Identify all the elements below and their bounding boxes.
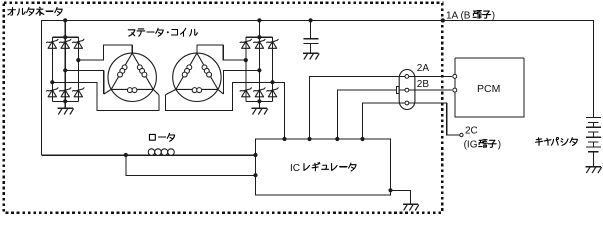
node: regulator P terminal <box>282 137 286 141</box>
label: ステータ・コイル (stator coil) <box>128 28 197 36</box>
label: (IG端子) <box>464 140 502 151</box>
labels (kana drawn with mini stroke font) <box>8 7 578 174</box>
ground: capacitor bank <box>586 167 602 173</box>
diode D3 (left bridge top row, col3) <box>72 39 84 48</box>
ground: capacitor C1 <box>303 53 319 59</box>
rotor coil L1 <box>148 149 174 156</box>
wire: left bridge column 2 <box>64 37 66 101</box>
node: left bridge phase tap col3 <box>76 58 80 62</box>
ground: left bridge <box>57 108 73 114</box>
label: キャパシタ (capacitor) <box>535 137 577 145</box>
PCM box U2 <box>455 58 524 117</box>
wire 2A: connector pin1 to PCM <box>409 75 452 77</box>
label: ロータ (rotor) <box>149 133 174 141</box>
diode D6 (left bridge bottom row, col3) <box>72 88 84 97</box>
connector pin 3 <box>405 101 409 105</box>
wire: rotor upper wire <box>42 154 256 156</box>
connector pin 2 <box>405 88 409 92</box>
svg-text:2A: 2A <box>417 63 430 74</box>
wire 2B: connector pin2 to PCM <box>409 89 452 91</box>
node: regulator terminal to 2C <box>360 137 364 141</box>
node: left bridge B+ junction <box>63 18 67 22</box>
stator R circle <box>173 53 221 101</box>
svg-text:): ) <box>492 10 495 21</box>
node: left bridge phase tap col2 <box>63 68 67 72</box>
wire: right col3 tap around bottom to right stator lower-left lead <box>165 82 272 110</box>
svg-text:IC: IC <box>290 163 300 174</box>
stator coil right (delta winding) <box>165 53 223 101</box>
alternator dotted boundary box <box>4 3 443 213</box>
wire: stem into capacitor bank <box>592 115 594 117</box>
svg-text:PCM: PCM <box>477 83 500 95</box>
wire stubs to pins inside capsule <box>400 76 405 103</box>
label: ICレギュレータ (IC regulator) <box>290 162 356 173</box>
node: right bridge bottom bus junction <box>257 99 261 103</box>
node: right bridge phase tap col3 <box>270 80 274 84</box>
svg-text:1A (B: 1A (B <box>446 10 471 21</box>
diode D5 (left bridge bottom row, col2) <box>59 88 71 97</box>
wire: right bridge bottom bus <box>246 100 273 102</box>
wire: left bridge ground stem <box>64 101 66 108</box>
capacitor bank plates <box>586 117 601 151</box>
svg-text:(IG: (IG <box>464 140 478 151</box>
stator R winding loops right edge <box>202 65 212 77</box>
diode D2 (left bridge top row, col2) <box>59 39 71 48</box>
wire: left bridge top bus <box>52 36 78 38</box>
wire: right col3 tap to IC regulator P terminal <box>273 82 285 139</box>
diode D11 (right bridge bottom row, col2) <box>253 88 265 97</box>
stator L delta triangle <box>111 53 153 89</box>
stator R winding loops bottom edge <box>192 88 201 93</box>
node: regulator F terminal (rotor) <box>253 153 257 157</box>
stator L lead bottom-left <box>104 89 112 94</box>
wire: regulator to connector pin 1 <box>310 76 406 139</box>
diode D7 (right bridge top row, col1) <box>240 39 252 48</box>
connector key notch <box>396 87 399 94</box>
stator R lead bottom-left <box>165 89 176 94</box>
svg-text:2B: 2B <box>417 79 430 90</box>
diode D12 (right bridge bottom row, col3) <box>267 88 279 97</box>
wire: right bridge col2 riser to B+ bus <box>258 20 260 37</box>
svg-text:2C: 2C <box>465 126 478 137</box>
capacitor C1 (noise suppressor on B+ bus) <box>303 18 319 59</box>
stator L lead bottom-right <box>153 89 159 94</box>
diode D10 (right bridge bottom row, col1) <box>240 88 252 97</box>
wire: left bridge column 1 <box>51 37 53 101</box>
capacitor C1 plates <box>303 39 318 44</box>
capacitor bank inner stems <box>592 122 594 147</box>
wire: left col2 tap to left stator lower-left lead <box>65 70 104 94</box>
capacitor bank (キャパシタ) at battery line <box>586 115 602 173</box>
stator coil left (delta winding) <box>104 53 159 101</box>
node: regulator terminal to 2A <box>307 137 311 141</box>
diode D9 (right bridge top row, col3) <box>267 39 279 48</box>
stator L circle <box>108 53 156 101</box>
wire: regulator to connector pin 3 <box>363 103 406 139</box>
node: right bridge phase tap col1 <box>244 58 248 62</box>
connector J1 (capsule) <box>399 70 415 110</box>
wire: capacitor bottom stem <box>310 44 312 53</box>
wire: left col3 tap to left stator top vertex <box>78 45 132 60</box>
node: left bridge top bus junction <box>63 35 67 39</box>
stator R delta triangle <box>176 53 218 89</box>
wire: capacitor top stem <box>310 20 312 38</box>
PCM pin for 2B <box>453 88 457 92</box>
wire: right bridge column 3 <box>272 37 274 101</box>
terminal: 2C IG open circle <box>460 133 463 136</box>
wire: capacitor bank to ground <box>592 152 594 167</box>
stator R lead bottom-right <box>218 89 224 94</box>
node: B terminal 1A junction on boundary <box>441 18 445 22</box>
wire: left col1 tap around bottom to left stator lower-right lead <box>52 82 159 110</box>
stator L winding loops right edge <box>137 65 146 77</box>
wire: right col1 tap to right stator top vertex <box>197 45 246 60</box>
wire: rotor lower branch <box>126 155 256 175</box>
node: left bridge phase tap col1 <box>50 80 54 84</box>
node: regulator E terminal <box>388 188 392 192</box>
wire: left bridge bottom bus <box>52 100 78 102</box>
label: オルタネータ (alternator) <box>8 7 62 15</box>
wire: right bridge ground stem <box>258 101 260 108</box>
wire: right col2 tap to right stator lower-right lead <box>223 70 259 94</box>
label: 1A (B端子) <box>446 10 495 21</box>
PCM pin for 2A <box>453 74 457 78</box>
wire: right bridge column 2 <box>258 37 260 101</box>
node: regulator rotor return terminal <box>253 173 257 177</box>
diode D8 (right bridge top row, col2) <box>253 39 265 48</box>
wire: regulator ground <box>391 190 411 204</box>
wire: main B+ bus across the top <box>42 20 594 155</box>
diode D1 (left bridge top row, col1) <box>46 39 58 48</box>
node: capacitor tap on B+ bus <box>309 18 313 22</box>
node: regulator terminal to 2B <box>335 137 339 141</box>
node: right bridge phase tap col2 <box>257 68 261 72</box>
wire: left bridge column 3 <box>77 37 79 101</box>
ground: right bridge <box>252 108 268 114</box>
ground: regulator <box>403 204 419 210</box>
IC regulator box U1 <box>256 139 391 195</box>
wire: right bridge column 1 <box>245 37 247 101</box>
svg-text:): ) <box>498 140 501 151</box>
connector pin 1 <box>405 75 409 79</box>
stator R winding loops left edge <box>182 65 192 77</box>
node: rotor tap junction <box>124 153 128 157</box>
wire: left bridge col2 riser to B+ bus <box>64 20 66 37</box>
diode D4 (left bridge bottom row, col1) <box>46 88 58 97</box>
wire 2C: connector pin3 to IG terminal <box>409 103 460 135</box>
node: right bridge B+ junction <box>257 18 261 22</box>
wire: regulator to connector pin 2 <box>337 90 405 139</box>
node: right bridge top bus junction <box>257 35 261 39</box>
wire: right bridge top bus <box>246 36 273 38</box>
stator L winding loops left edge <box>118 65 128 77</box>
stator L winding loops bottom edge <box>127 88 137 93</box>
node: left bridge bottom bus junction <box>63 99 67 103</box>
